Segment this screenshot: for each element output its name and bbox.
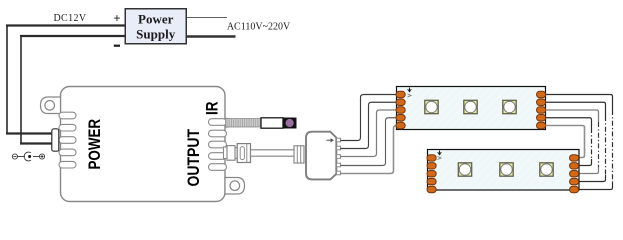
strip1 LED D3 — [503, 100, 516, 113]
wire: AC live (thick) — [187, 35, 236, 37]
wire: AC neutral (thin) — [187, 17, 228, 19]
strip1 right solder pads — [537, 91, 546, 128]
wire strip1 pad5 to strip2 pad1 (solid gray) — [546, 126, 585, 158]
strip2 LED D4 — [458, 163, 471, 176]
output plug — [237, 144, 250, 163]
svg-text:IR: IR — [203, 101, 222, 115]
svg-text:+: + — [113, 11, 120, 26]
mounting ear bottom-right — [225, 178, 245, 195]
output barrel — [224, 147, 228, 159]
hub connector — [306, 132, 336, 180]
power plug J1 — [52, 129, 59, 151]
controller left pin tabs — [59, 112, 76, 168]
wire strip1 pad2 to strip2 pad4 (dashed run) — [546, 102, 606, 181]
output cable — [251, 150, 295, 156]
LED strip 2 — [428, 150, 580, 191]
wire hub pin5 to strip1 pad5 — [341, 126, 397, 174]
dc polarity symbol — [12, 152, 44, 161]
strip2 LED D6 — [540, 163, 553, 176]
svg-text:Supply: Supply — [136, 27, 176, 42]
hub clip arrow — [326, 139, 331, 141]
svg-text:AC110V~220V: AC110V~220V — [227, 22, 291, 33]
controller right pin tabs — [209, 119, 227, 171]
strain relief ribs — [294, 146, 304, 163]
svg-text:POWER: POWER — [86, 119, 105, 170]
wire strip1 pad1 to strip2 pad5 (dashed run) — [546, 95, 613, 190]
strip1 direction arrow — [408, 88, 412, 92]
strip1 left solder pads — [396, 91, 405, 128]
IR receiver — [261, 118, 297, 129]
svg-text:Power: Power — [138, 12, 174, 27]
strip2 direction arrow — [438, 151, 442, 155]
wire strip1 pad3 to strip2 pad3 (dashed run) — [546, 110, 599, 174]
minus terminal label — [114, 45, 120, 47]
LED strip 1 — [397, 87, 546, 130]
power supply PS1 — [125, 9, 186, 44]
wire hub pin3 to strip1 pad3 — [341, 110, 397, 157]
wire hub pin2 to strip1 pad2 — [341, 102, 397, 148]
strip1 LED D1 — [425, 100, 438, 113]
mounting ear top-left — [41, 97, 61, 114]
controller U1 body — [61, 87, 226, 202]
wire: DC12V + lead — [6, 24, 125, 26]
strip2 left solder pads — [427, 155, 436, 193]
IR cable — [226, 117, 231, 128]
svg-text:OUTPUT: OUTPUT — [185, 128, 203, 186]
strip2 right solder pads — [570, 155, 579, 193]
wire hub pin4 to strip1 pad4 — [341, 118, 397, 166]
strip1 LED D2 — [464, 100, 477, 113]
wire: DC12V - lead — [20, 35, 125, 37]
hub pins — [337, 138, 341, 175]
svg-text:DC12V: DC12V — [53, 13, 86, 24]
strip2 LED D5 — [500, 163, 513, 176]
wire strip1 pad4 to strip2 pad2 (dashed run) — [546, 118, 592, 166]
wire hub pin1 to strip1 pad1 — [341, 95, 397, 141]
